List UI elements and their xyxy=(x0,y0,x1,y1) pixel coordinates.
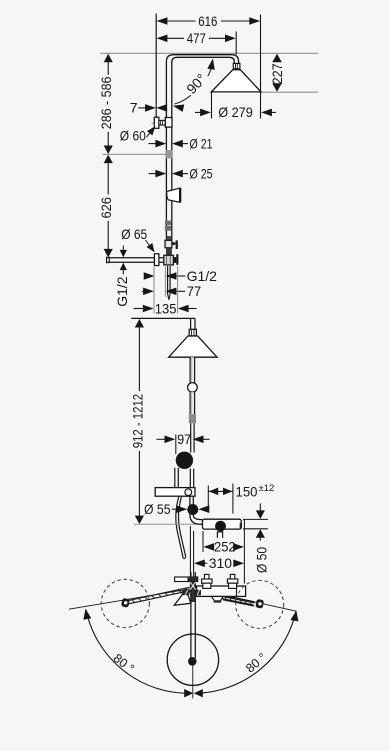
svg-text:±12: ±12 xyxy=(259,483,275,494)
svg-text:286 - 586: 286 - 586 xyxy=(98,76,114,129)
svg-text:Ø 60: Ø 60 xyxy=(120,127,146,143)
svg-text:912 - 1212: 912 - 1212 xyxy=(130,394,146,449)
svg-text:135: 135 xyxy=(155,300,177,316)
svg-text:Ø 25: Ø 25 xyxy=(190,165,213,181)
svg-text:G1/2: G1/2 xyxy=(187,268,218,284)
svg-text:77: 77 xyxy=(187,283,201,299)
svg-text:Ø 55: Ø 55 xyxy=(144,501,171,517)
svg-text:Ø 50: Ø 50 xyxy=(253,547,269,573)
svg-text:7: 7 xyxy=(130,100,138,116)
svg-text:97: 97 xyxy=(177,432,191,447)
svg-text:150: 150 xyxy=(236,484,258,500)
svg-text:616: 616 xyxy=(198,13,217,29)
svg-text:227: 227 xyxy=(269,63,285,84)
svg-text:252: 252 xyxy=(214,539,236,555)
svg-text:310: 310 xyxy=(209,555,233,571)
svg-text:Ø 65: Ø 65 xyxy=(121,226,147,242)
svg-text:G1/2: G1/2 xyxy=(114,276,130,307)
svg-text:Ø 279: Ø 279 xyxy=(218,104,253,120)
svg-text:477: 477 xyxy=(187,30,206,46)
svg-text:626: 626 xyxy=(98,197,114,219)
svg-text:Ø 21: Ø 21 xyxy=(190,135,213,151)
